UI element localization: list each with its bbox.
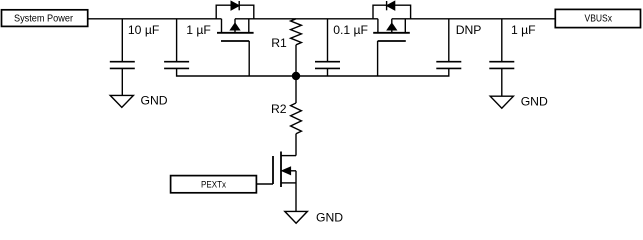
capacitor 1uF (left) top lead: [176, 19, 178, 61]
svg-text:GND: GND: [521, 94, 548, 108]
wire Q1 source to Q2 source: [235, 18, 378, 20]
wire Q2 drain to VBUSx: [392, 18, 556, 20]
svg-text:R1: R1: [271, 36, 287, 50]
body diode D2: [387, 1, 395, 10]
MOSFET Q2 body-diode loop: [373, 5, 411, 19]
transistor Q3 gate bar: [272, 156, 274, 184]
MOSFET Q1 drain stub: [221, 19, 223, 33]
svg-text:VBUSx: VBUSx: [585, 14, 613, 25]
svg-text:GND: GND: [141, 94, 168, 108]
capacitor 0.1uF bottom lead: [327, 68, 329, 76]
capacitor C 1uF left: [164, 62, 189, 69]
svg-text:R2: R2: [271, 102, 287, 116]
svg-text:10 µF: 10 µF: [128, 23, 159, 37]
MOSFET Q1 gate lead: [248, 41, 250, 76]
svg-text:GND: GND: [316, 210, 343, 224]
MOSFET Q2 gate bar: [378, 40, 406, 42]
MOSFET Q1 channel bar: [217, 32, 254, 34]
body diode D1: [231, 1, 239, 10]
port PEXTx: [171, 176, 257, 193]
ground right: [490, 94, 548, 108]
node junction dot: [292, 72, 300, 80]
capacitor 1uF right bottom lead: [501, 68, 503, 96]
capacitor DNP top lead: [448, 19, 450, 61]
MOSFET Q1 body arrow: [230, 19, 239, 33]
port VBUSx: [555, 9, 640, 27]
capacitor 10uF top lead: [121, 19, 123, 61]
svg-text:DNP: DNP: [456, 23, 482, 37]
svg-text:PEXTx: PEXTx: [201, 179, 226, 190]
transistor Q3 body arrow: [281, 167, 296, 175]
transistor Q3 source to ground wire: [295, 171, 297, 212]
port System Power: [2, 10, 88, 27]
MOSFET Q1 source stub: [248, 19, 250, 33]
capacitor 10uF bottom lead: [121, 68, 123, 95]
MOSFET Q2 drain stub: [404, 19, 406, 33]
MOSFET Q2 gate lead: [377, 41, 379, 76]
MOSFET Q2 source stub: [377, 19, 379, 33]
svg-text:System Power: System Power: [14, 13, 74, 24]
ground left: [110, 94, 168, 108]
capacitor C 0.1uF: [315, 62, 340, 69]
MOSFET Q2 body arrow: [387, 19, 396, 33]
capacitor C 1uF right: [489, 62, 514, 69]
resistor R2: [271, 76, 301, 156]
capacitor 1uF (right) top lead: [501, 19, 503, 61]
capacitor C DNP: [436, 62, 461, 69]
capacitor 0.1uF top lead: [327, 19, 329, 61]
transistor Q3 gate lead: [257, 183, 274, 185]
svg-text:0.1 µF: 0.1 µF: [333, 23, 368, 37]
wire from System Power to Q1 drain: [88, 18, 222, 20]
capacitor C 10uF: [110, 62, 135, 69]
MOSFET Q1 gate bar: [221, 40, 249, 42]
transistor Q3 channel bar: [280, 152, 282, 188]
svg-text:1 µF: 1 µF: [511, 23, 536, 37]
ground bottom: [285, 210, 343, 224]
gate bus wire (1uF bottom to DNP bottom): [177, 68, 449, 76]
MOSFET Q2 channel bar: [373, 32, 410, 34]
transistor Q3 source lead: [281, 182, 296, 184]
transistor Q3 drain lead: [281, 155, 296, 157]
svg-text:1 µF: 1 µF: [186, 23, 211, 37]
resistor R1: [271, 19, 301, 76]
MOSFET Q1 body-diode loop: [216, 5, 254, 19]
